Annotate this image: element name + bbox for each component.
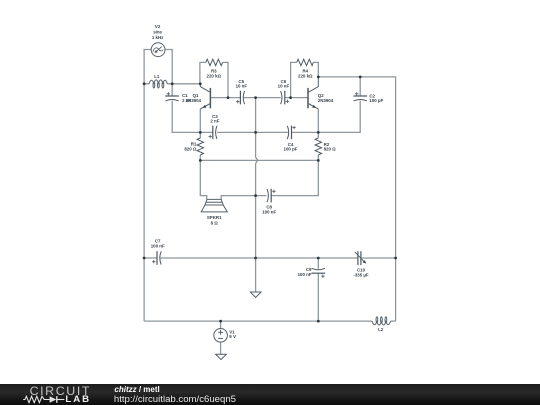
capacitor C7 xyxy=(152,251,161,265)
resistor R3 zigzag xyxy=(206,59,223,65)
svg-text:820 Ω: 820 Ω xyxy=(184,146,197,151)
transistor Q2 bar xyxy=(307,88,309,108)
capacitor C8 xyxy=(267,189,276,203)
wire: V2 left arm and left rail down to bottom rail xyxy=(144,50,151,322)
capacitor C1 xyxy=(165,92,179,101)
svg-text:10 nF: 10 nF xyxy=(278,84,290,89)
wire: speaker right branch to C8 xyxy=(221,196,266,200)
wire: R4 right leg xyxy=(313,62,318,77)
wire: Q1 emitter vertical down to mid rail xyxy=(199,109,201,132)
capacitor C2 xyxy=(353,92,367,101)
node junction: R3 right leg / Q1 base xyxy=(227,96,230,99)
svg-text:V2: V2 xyxy=(155,24,161,29)
svg-text:-335 µF: -335 µF xyxy=(353,272,369,277)
capacitor C5 xyxy=(236,91,245,105)
transistor Q2 collector lead xyxy=(308,77,318,92)
svg-text:220 kΩ: 220 kΩ xyxy=(298,74,313,79)
wire: y258 rail left segment to C7 xyxy=(144,257,157,259)
wire: speaker left branch xyxy=(200,160,206,199)
voltage source V2 circle xyxy=(151,43,165,57)
wire: central vertical with hop over y160 rail xyxy=(255,98,257,292)
svg-text:1 kHz: 1 kHz xyxy=(152,35,164,40)
svg-text:L1: L1 xyxy=(154,74,160,79)
wire: y258 rail C10 to right rail xyxy=(362,257,396,259)
wire: collector rail from left rail through L1 to Q1 collector junction xyxy=(144,83,200,85)
wire: R1 stubs xyxy=(199,132,201,160)
wire: V2 right arm down to L1 rail xyxy=(165,50,172,84)
wire: L2 to bottom right corner xyxy=(391,320,396,322)
voltage source V2 sine-arrow glyph xyxy=(153,47,163,52)
node junction: left rail / C7 rail xyxy=(143,257,146,260)
wire: bottom rail from left corner to L2 xyxy=(144,320,372,322)
inductor L1 coil xyxy=(149,80,167,88)
svg-text:10 nF: 10 nF xyxy=(236,84,248,89)
node junction: V1 / bottom rail xyxy=(219,320,222,323)
wire: top rail from Q2 collector junction to right rail corner, down right rail xyxy=(318,77,395,321)
wire: y258 rail C7 to C10 xyxy=(160,257,357,259)
node junction: R3 left leg / Q1 collector xyxy=(199,82,202,85)
ground symbol below V1 xyxy=(216,354,227,359)
capacitor C4 xyxy=(287,126,296,140)
wire: V1 bottom stub to ground xyxy=(220,342,222,354)
node junction: R1 bottom / y160 rail xyxy=(199,159,202,162)
node junction: C7 rail / central vertical xyxy=(254,257,257,260)
node junction: speaker rail / central vertical xyxy=(254,194,257,197)
wire: V1 top stub xyxy=(220,321,222,328)
wire: mid rail from emitter node through C3 C4 to R2 node xyxy=(200,131,318,133)
footer bar xyxy=(0,384,540,405)
transistor Q2 emitter arrow xyxy=(312,105,316,108)
wire: C9 branch from y258 rail down to bottom rail xyxy=(317,258,319,321)
capacitor C6 xyxy=(281,91,290,105)
variable capacitor C10 xyxy=(355,251,364,265)
svg-text:L2: L2 xyxy=(378,327,384,332)
capacitor C9 xyxy=(312,268,326,278)
wire: Q2 emitter vertical down to mid rail xyxy=(317,109,319,132)
resistor R1 zigzag xyxy=(197,138,203,155)
svg-text:100 nF: 100 nF xyxy=(262,209,276,214)
wire: R4 left leg xyxy=(291,62,297,97)
transistor Q1 bar xyxy=(209,88,211,108)
transistor Q1 emitter arrow xyxy=(203,105,207,108)
svg-text:2N3904: 2N3904 xyxy=(186,98,202,103)
svg-text:8 Ω: 8 Ω xyxy=(211,220,219,225)
svg-text:100 pF: 100 pF xyxy=(284,147,298,152)
wire: mid rail to C2 branch corner and up to top rail xyxy=(318,77,360,132)
CircuitLab logo wordmark xyxy=(30,384,91,398)
svg-text:100 nF: 100 nF xyxy=(298,272,312,277)
svg-text:sine: sine xyxy=(153,29,162,34)
voltage source V1 circle xyxy=(214,329,228,343)
svg-text:2N3904: 2N3904 xyxy=(318,98,334,103)
voltage source V1 minus sign xyxy=(218,337,223,339)
svg-text:100 pF: 100 pF xyxy=(369,98,383,103)
resistor R2 zigzag xyxy=(315,138,321,155)
CircuitLab logo LAB text xyxy=(65,394,91,405)
inductor L2 coil xyxy=(372,317,391,325)
capacitor C3 xyxy=(209,126,218,140)
ground symbol below central vertical xyxy=(250,292,261,297)
node junction: C3-C4 rail / central vertical xyxy=(254,131,257,134)
speaker SPKR1 body xyxy=(201,199,227,212)
node junction: C2 branch / top rail xyxy=(359,76,362,79)
svg-text:2 nF: 2 nF xyxy=(210,118,219,123)
footer user / title xyxy=(114,385,159,394)
wire: C5 to C6 segment through node A xyxy=(244,97,281,99)
voltage source V1 plus sign xyxy=(218,330,223,335)
footer url xyxy=(114,394,236,405)
node junction: C9 branch / bottom rail xyxy=(317,320,320,323)
wire: R2 stubs xyxy=(317,132,319,160)
svg-text:220 kΩ: 220 kΩ xyxy=(207,74,222,79)
wire: y160 rail between R1 and R2 xyxy=(200,159,318,161)
node junction: R4 left leg / Q2 base xyxy=(289,96,292,99)
wire: C8 to right corner up to R2 node xyxy=(271,160,318,195)
node junction: R4 right leg / Q2 collector xyxy=(317,76,320,79)
transistor Q2 emitter lead xyxy=(308,104,318,109)
node junction: Q1 emitter / C1 / C3 / R1 xyxy=(199,131,202,134)
svg-text:820 Ω: 820 Ω xyxy=(324,147,337,152)
node junction: C9 branch / y258 rail xyxy=(317,257,320,260)
node junction: C5-C6 rail / central vertical xyxy=(254,96,257,99)
node junction: R2 bottom / y160 rail xyxy=(317,159,320,162)
node junction: C10 / right rail xyxy=(394,257,397,260)
node junction: left rail / L1 left xyxy=(143,82,146,85)
transistor Q1 collector lead xyxy=(200,84,210,93)
resistor R4 zigzag xyxy=(297,59,314,65)
svg-text:100 nF: 100 nF xyxy=(151,243,165,248)
transistor Q1 emitter lead xyxy=(200,104,210,109)
wire: R3 right leg xyxy=(223,62,228,97)
node junction: Q2 emitter / C4 / R2 xyxy=(317,131,320,134)
node junction: L1 right / C1 branch xyxy=(171,82,174,85)
wire: hop bump on central vertical xyxy=(256,157,258,163)
wire: C6 to Q2 base xyxy=(285,97,308,99)
CircuitLab logo resistor-diode glyph xyxy=(20,395,70,405)
wire: C1 branch from L1 junction down and over to emitter node xyxy=(172,84,200,133)
svg-text:9 V: 9 V xyxy=(229,334,236,339)
wire: Q1 base rail to C5 xyxy=(210,97,240,99)
wire: R3 left leg xyxy=(200,62,206,83)
